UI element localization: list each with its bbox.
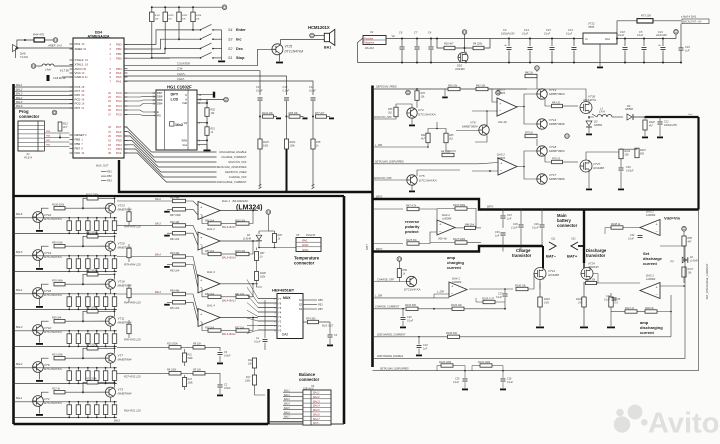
svg-text:AREF_5+5: AREF_5+5: [47, 44, 62, 48]
capacitor C2N 0.1uF: [612, 298, 617, 300]
resistor R103 0.05 (charge shunt): [539, 280, 541, 298]
svg-text:R86 200k: R86 200k: [86, 232, 97, 235]
svg-text:CHARGE_OFF: CHARGE_OFF: [229, 175, 247, 179]
svg-text:R12: R12: [63, 122, 68, 126]
wire BAL1 to MCU: [14, 86, 74, 88]
capacitor C28 2.2uF: [520, 210, 522, 225]
svg-text:DS-210: DS-210: [365, 46, 374, 50]
capacitor C19 1uF: [418, 338, 420, 345]
wire MUX input: [247, 295, 277, 308]
resistor R134 0.5: [609, 297, 613, 307]
svg-text:MMBTA64: MMBTA64: [118, 208, 132, 212]
resistor R11 500k: [182, 353, 186, 362]
svg-text:Vdd: Vdd: [182, 101, 187, 105]
svg-text:BAL8: BAL8: [114, 420, 121, 423]
svg-text:R93 44k: R93 44k: [170, 252, 180, 255]
svg-text:R105 N.37: R105 N.37: [482, 297, 495, 300]
resistor R74 300 (MUX out): [303, 321, 307, 323]
resistor R125 100k: [258, 139, 262, 149]
svg-text:22uFx16V: 22uFx16V: [655, 34, 667, 37]
svg-text:AO4407A: AO4407A: [582, 98, 596, 102]
svg-text:R123 10k: R123 10k: [585, 279, 596, 282]
svg-text:AO4468: AO4468: [454, 67, 465, 71]
svg-text:R33 100k: R33 100k: [52, 353, 63, 356]
capacitor C26 0.1uF: [541, 210, 543, 225]
capacitor C10 1uF: [680, 24, 682, 48]
svg-text:transistor: transistor: [586, 253, 606, 258]
capacitor C26b 0.1uF: [502, 371, 504, 378]
transistor VT10 DTC1N4YKA: [33, 325, 44, 336]
svg-text:SETA2UAK_DISPUPRES: SETA2UAK_DISPUPRES: [217, 165, 247, 169]
svg-text:ATMEGA32A: ATMEGA32A: [88, 34, 110, 38]
wire CHAT- battery sense: [124, 81, 313, 95]
svg-text:2.2uF: 2.2uF: [510, 226, 518, 229]
resistor R24 4k7: [426, 133, 430, 143]
svg-text:R95 510k: R95 510k: [52, 241, 63, 244]
ground (VT19): [36, 268, 43, 270]
svg-text:BAL3: BAL3: [16, 325, 23, 329]
svg-text:R101 200k: R101 200k: [86, 194, 99, 197]
svg-text:4 18 28 39: 4 18 28 39: [53, 76, 66, 80]
wire VT8 base: [456, 130, 479, 132]
resistor R198 1k: [611, 226, 623, 229]
wire sense to bus: [259, 149, 261, 188]
svg-text:Vdd–Vin: Vdd–Vin: [498, 121, 508, 124]
svg-text:TL431: TL431: [20, 55, 28, 59]
svg-text:MUX: MUX: [283, 296, 291, 300]
svg-text:S2: S2: [228, 47, 232, 51]
resistor R51 2k4 (input-): [164, 304, 170, 306]
transistor VT25 DTC1N4YKA: [272, 44, 283, 55]
transistor VT14 MMBT3906: [537, 119, 547, 129]
resistor R88 2k4 (feedback): [208, 222, 221, 225]
resistor R106b 300: [373, 336, 448, 338]
wire switch common to ground: [221, 30, 223, 60]
svg-text:protect: protect: [405, 229, 419, 234]
svg-text:PA5: PA5: [75, 93, 81, 97]
svg-text:DA3.1: DA3.1: [646, 274, 654, 278]
svg-text:R121 1k: R121 1k: [625, 307, 635, 310]
op-amp DA1.4 (LM324): [198, 309, 220, 327]
wire prog-MCU: [45, 132, 70, 134]
box balancer section frame: [14, 195, 345, 197]
svg-text:R54 44k: R54 44k: [170, 289, 180, 292]
svg-text:R45–R50 120: R45–R50 120: [124, 338, 141, 342]
svg-text:0.1uF: 0.1uF: [453, 382, 459, 384]
svg-text:R43 10k: R43 10k: [441, 150, 451, 153]
svg-text:PLS-9: PLS-9: [24, 156, 32, 160]
wire DA1.2 output: [220, 240, 258, 242]
svg-text:C7: C7: [414, 31, 418, 35]
resistor R104 10k (pullup): [192, 7, 194, 12]
wire VT25 collector: [281, 40, 325, 44]
svg-text:PA0: PA0: [302, 239, 308, 243]
svg-text:R92 44k: R92 44k: [170, 221, 180, 224]
svg-text:DA4.1: DA4.1: [452, 277, 460, 281]
wire BAL3 row input: [14, 330, 33, 332]
svg-text:PA3: PA3: [116, 130, 122, 134]
op-amp DA1.1 (LM324): [198, 202, 220, 220]
svg-text:R104 10k: R104 10k: [451, 304, 462, 307]
svg-text:BAL6: BAL6: [16, 212, 23, 216]
MOSFET VT27 AO4468: [580, 160, 592, 172]
svg-text:X2: X2: [369, 30, 374, 34]
wire BAL5 row input: [14, 255, 33, 257]
svg-text:S3: S3: [228, 38, 232, 42]
wire discharge-current run: [460, 336, 672, 338]
svg-text:R57 200k: R57 200k: [86, 307, 97, 310]
resistor R56 2k4: [42, 321, 49, 325]
wire BAT- thick to balance connector: [267, 389, 269, 424]
svg-text:BAL4: BAL4: [155, 254, 162, 257]
resistor R91 2k4 (input-): [164, 235, 170, 237]
power symbol (VT18): [565, 134, 570, 139]
svg-text:X5: X5: [295, 233, 300, 237]
resistor R77 200k: [83, 274, 87, 284]
wire adc1: [117, 346, 169, 348]
svg-text:R44 470: R44 470: [33, 33, 44, 37]
svg-text:MMBT3904: MMBT3904: [549, 149, 565, 153]
svg-text:BAL2: BAL2: [313, 395, 320, 399]
svg-text:R26 4k7: R26 4k7: [444, 43, 454, 46]
svg-text:BAL4: BAL4: [284, 403, 290, 406]
power symbol +5V (pullups): [222, 5, 227, 10]
resistor R13 100k: [182, 378, 186, 387]
svg-text:AO4468: AO4468: [592, 166, 604, 170]
wire charger output (thick): [645, 116, 699, 118]
resistor R97 240k (input-): [164, 211, 170, 213]
resistor R103 10k (pullup): [178, 7, 180, 12]
wire sense to bus: [312, 149, 314, 188]
wire MUX input: [247, 330, 277, 333]
svg-text:BATN: BATN: [487, 206, 493, 209]
svg-text:R16–R21 120: R16–R21 120: [124, 409, 141, 413]
svg-text:R74 300: R74 300: [306, 317, 316, 320]
wire net SO2C/ON_OFF: [124, 136, 217, 162]
svg-text:C10: C10: [685, 45, 690, 49]
svg-text:VT5: VT5: [419, 174, 425, 178]
svg-text:DA1.1: DA1.1: [222, 199, 230, 203]
svg-text:BATN: BATN: [376, 248, 382, 251]
svg-text:Y1: Y1: [278, 324, 282, 328]
svg-text:CHARGE_CURRENT: CHARGE_CURRENT: [375, 306, 400, 309]
svg-text:Avito: Avito: [648, 408, 719, 440]
svg-text:DISCHARGE_CURRENT: DISCHARGE_CURRENT: [377, 333, 406, 336]
wire R24-R25 node: [428, 129, 446, 134]
svg-text:2k2: 2k2: [387, 111, 393, 114]
svg-text:R120 100k: R120 100k: [439, 361, 452, 364]
svg-text:PB6: PB6: [75, 142, 81, 146]
svg-text:connector: connector: [299, 377, 320, 382]
resistor R95 510k: [42, 246, 49, 250]
svg-text:BAL4: BAL4: [16, 288, 23, 292]
svg-text:MMBT3904: MMBT3904: [549, 92, 565, 96]
wire MCU-LCD data: [124, 92, 156, 94]
svg-text:R64–R69 120: R64–R69 120: [124, 301, 141, 305]
svg-text:Enter: Enter: [236, 28, 246, 32]
svg-text:4k7: 4k7: [649, 124, 654, 127]
wire VT6 emitter: [39, 372, 41, 380]
svg-text:MMBTA64: MMBTA64: [118, 358, 132, 362]
svg-text:R77 200k: R77 200k: [86, 270, 97, 273]
resistor R59 1k: [398, 261, 400, 268]
svg-text:1000uFx25V: 1000uFx25V: [501, 32, 515, 35]
svg-text:R36 10k: R36 10k: [448, 84, 458, 87]
svg-text:PB0: PB0: [318, 299, 323, 302]
wire MUX input: [247, 318, 277, 321]
resistor R23 200k: [83, 382, 87, 392]
svg-text:DTC1N4YKA: DTC1N4YKA: [404, 288, 421, 292]
svg-text:R39 2k4: R39 2k4: [205, 327, 215, 330]
resistor R104b 10k: [452, 307, 464, 310]
svg-text:Y6: Y6: [278, 302, 282, 306]
svg-text:0.1uF: 0.1uF: [532, 226, 539, 229]
wire VT2 emitter: [39, 406, 41, 414]
wire net DEPSOVN_PRED: [124, 145, 217, 172]
svg-text:Stop: Stop: [236, 56, 245, 60]
wire BAL4 to balance connector: [283, 404, 303, 406]
wire MCU-LCD data: [124, 110, 156, 112]
wire BAL5 to balance connector: [283, 409, 303, 411]
svg-text:S1: S1: [228, 56, 232, 60]
resistor R8 100k: [169, 372, 181, 375]
net label PB1: [101, 171, 107, 173]
svg-text:BAL6: BAL6: [155, 198, 162, 201]
svg-text:BAL1: BAL1: [284, 389, 290, 392]
wire MCU-LCD data: [124, 100, 156, 101]
transistor VT18 DTC1N4YKA: [33, 288, 44, 299]
svg-text:4k7: 4k7: [688, 240, 693, 243]
svg-text:BAL1: BAL1: [16, 83, 23, 87]
svg-text:D3: D3: [594, 120, 598, 124]
transistor VT3 MMBTA64: [106, 387, 116, 397]
resistor array R16–R21 120: [33, 401, 118, 403]
svg-text:BAL3: BAL3: [313, 399, 320, 403]
svg-text:C9: C9: [503, 28, 507, 32]
resistor R12 4u7: [58, 122, 62, 131]
wire DEPSOVN_PRED top: [373, 88, 528, 90]
capacitor C25 0.1uF: [464, 371, 466, 378]
svg-text:LM2904: LM2904: [442, 216, 452, 220]
resistor R125 33k: [373, 243, 404, 245]
svg-text:DEPSOVN_PRED: DEPSOVN_PRED: [376, 86, 397, 89]
svg-text:6 17 38: 6 17 38: [60, 69, 69, 73]
resistor R121 1k: [625, 310, 637, 313]
transistor VT2 DTC1N4YKA: [33, 396, 44, 407]
svg-text:BAT−: BAT−: [313, 421, 320, 425]
svg-text:PB1: PB1: [116, 52, 122, 56]
wire BAL1 row input: [14, 401, 33, 403]
svg-text:C11: C11: [309, 85, 314, 89]
transistor VT16 MMBTA64: [106, 279, 116, 289]
svg-text:(к): (к): [671, 259, 674, 263]
svg-text:R51 2k4: R51 2k4: [170, 307, 180, 310]
wire 7805 out rail: [617, 38, 676, 40]
svg-text:C8: C8: [399, 31, 403, 35]
wire net DISCHARGE_CURRENT: [124, 153, 217, 182]
resistor R103b 300: [373, 308, 406, 310]
wire prog-MCU: [45, 137, 70, 139]
wire VT19 emitter: [39, 260, 41, 268]
resistor R20 (contrast upper): [205, 108, 209, 117]
svg-text:R125 33k: R125 33k: [406, 239, 417, 242]
resistor R58 4k7: [683, 231, 685, 236]
svg-text:X11: X11: [550, 237, 556, 241]
svg-text:BAL4–BAL3: BAL4–BAL3: [222, 299, 236, 302]
svg-text:C17: C17: [256, 85, 261, 89]
bus BAT+ down (thick): [583, 210, 585, 264]
svg-text:BAL1: BAL1: [16, 396, 23, 400]
resistor R53 2k4 (input-): [164, 266, 170, 268]
svg-text:current: current: [447, 265, 461, 270]
svg-text:BAL1: BAL1: [313, 391, 320, 395]
svg-text:connector: connector: [294, 261, 315, 266]
wire COUNTER: [124, 65, 258, 67]
resistor R87 2k4 (feedback): [208, 252, 221, 255]
svg-text:Y4: Y4: [278, 311, 282, 315]
svg-text:DISCHARGE_ENABLE: DISCHARGE_ENABLE: [219, 150, 246, 154]
svg-text:0.1uF: 0.1uF: [566, 32, 573, 35]
svg-text:R102: R102: [168, 15, 174, 17]
resistor R115 10k (output): [236, 252, 249, 255]
svg-text:R106 10k: R106 10k: [515, 284, 526, 287]
resistor R36 10k: [448, 87, 460, 90]
svg-text:BACKLIGHT_+5V: BACKLIGHT_+5V: [683, 21, 702, 24]
bus BAL (left vertical): [12, 84, 15, 424]
resistor R26 4k7: [444, 46, 455, 49]
capacitor C17b: [504, 289, 506, 293]
svg-text:S1: S1: [299, 298, 303, 302]
svg-text:1000uFx35V: 1000uFx35V: [664, 125, 677, 127]
svg-text:BA10324AF: BA10324AF: [233, 199, 249, 203]
svg-text:DA2: DA2: [282, 333, 288, 337]
inductor L3 (AVCC filter): [31, 64, 36, 69]
resistor R115 500: [635, 148, 639, 158]
wire BAL4 row input: [14, 293, 33, 295]
svg-text:C12: C12: [283, 85, 288, 89]
svg-text:0.1uF: 0.1uF: [254, 341, 261, 344]
net label PB3: [101, 180, 107, 182]
svg-text:R77 2k7: R77 2k7: [315, 112, 325, 115]
wire VT10 emitter: [39, 335, 41, 343]
svg-text:300: 300: [625, 153, 630, 156]
svg-text:SO2C/ON_OFF: SO2C/ON_OFF: [374, 177, 392, 180]
power symbol (DD2 gate): [462, 30, 467, 35]
svg-text:PD7: PD7: [75, 106, 81, 110]
resistor R44 470: [17, 40, 34, 48]
svg-text:1uF: 1uF: [507, 217, 512, 220]
resistor R41 10k (output): [236, 295, 249, 298]
svg-text:R78 240k: R78 240k: [52, 279, 63, 282]
svg-text:C26: C26: [507, 378, 512, 381]
ground (VT2): [36, 414, 43, 416]
wire VT8 emitter: [475, 135, 487, 142]
wire MUX input: [247, 280, 277, 299]
svg-text:BAL5: BAL5: [284, 407, 290, 410]
svg-text:2k2: 2k2: [448, 137, 454, 140]
svg-text:MMBTA64: MMBTA64: [118, 284, 132, 288]
svg-text:R115 10k: R115 10k: [235, 250, 246, 253]
svg-text:R9 10k: R9 10k: [193, 343, 202, 346]
wire MUX input: [247, 303, 277, 312]
svg-text:DISCHARGE_ENABLE: DISCHARGE_ENABLE: [377, 355, 403, 358]
svg-text:connector: connector: [557, 223, 578, 228]
svg-text:BAL6: BAL6: [16, 104, 23, 108]
svg-text:R101: R101: [155, 15, 161, 17]
svg-text:R5 10k: R5 10k: [193, 369, 202, 372]
svg-text:BAL2: BAL2: [284, 394, 290, 397]
svg-text:R4 220k: R4 220k: [473, 43, 483, 46]
svg-text:0.1uF: 0.1uF: [637, 34, 644, 37]
svg-text:100k: 100k: [290, 145, 296, 148]
svg-text:R10 200k: R10 200k: [167, 343, 178, 346]
svg-text:current: current: [640, 330, 654, 335]
svg-text:L4uH: L4uH: [45, 68, 51, 72]
svg-text:AO4468: AO4468: [547, 273, 559, 277]
svg-text:R53 2k4: R53 2k4: [170, 269, 180, 272]
svg-text:7805: 7805: [588, 25, 595, 29]
wire switch to MCU PB: [124, 49, 165, 54]
transistor VT17 MMBT3906: [537, 174, 547, 184]
svg-text:X12: X12: [570, 237, 576, 241]
svg-text:BA1: BA1: [324, 46, 331, 50]
resistor array R79–R84 120: [33, 255, 118, 257]
svg-text:DA5.1: DA5.1: [497, 88, 505, 92]
box power section frame (left edge): [371, 86, 374, 368]
resistor R108 100k: [256, 261, 258, 272]
svg-text:C21: C21: [664, 120, 669, 123]
capacitor C20 0.01uF: [620, 159, 622, 167]
svg-text:LM2904: LM2904: [646, 277, 656, 281]
resistor R76 1k: [311, 139, 315, 149]
resistor R101 200k: [83, 198, 87, 208]
svg-text:0.05: 0.05: [544, 301, 549, 304]
svg-text:BAL3: BAL3: [284, 398, 290, 401]
svg-text:COUNTER: COUNTER: [177, 62, 190, 66]
svg-text:C/W-: C/W-: [177, 67, 183, 71]
svg-text:DPY: DPY: [171, 93, 179, 97]
MOSFET DD2 AO4468: [464, 48, 466, 52]
wire BAL7 to balance connector: [283, 417, 303, 419]
svg-text:HG1 C1602F: HG1 C1602F: [167, 85, 192, 90]
resistor R5 10k: [193, 372, 205, 375]
resistor R119 2k: [645, 310, 657, 313]
resistor array R64–R69 120: [33, 293, 118, 295]
wire switch to MCU PB: [124, 57, 170, 59]
svg-text:CHARGE_OFF: CHARGE_OFF: [377, 278, 395, 281]
resistor R17 100k: [252, 375, 256, 385]
svg-text:L_IZM: L_IZM: [437, 291, 444, 294]
svg-text:100k: 100k: [188, 381, 194, 384]
wire LCD A-Vdd junction: [197, 100, 207, 103]
svg-text:DA1.3: DA1.3: [207, 270, 215, 274]
resistor R122 100k: [480, 364, 492, 367]
wire DA1.1 output: [220, 210, 258, 212]
svg-text:XTAL2: XTAL2: [75, 58, 84, 62]
svg-text:R59 2k4: R59 2k4: [205, 293, 215, 296]
ground (VT18): [36, 306, 43, 308]
svg-text:C13: C13: [568, 28, 573, 32]
wire CHAT+ battery sense: [124, 76, 287, 95]
svg-text:DB4: DB4: [157, 102, 163, 106]
resistor R106 10k: [469, 288, 513, 290]
svg-text:BAL4: BAL4: [313, 404, 320, 408]
svg-text:PB3: PB3: [116, 43, 122, 47]
resistor R76 10: [545, 156, 551, 162]
resistor R114 300: [619, 149, 623, 159]
svg-text:Vout: Vout: [688, 113, 693, 116]
bus charger out down (thick): [697, 117, 699, 210]
